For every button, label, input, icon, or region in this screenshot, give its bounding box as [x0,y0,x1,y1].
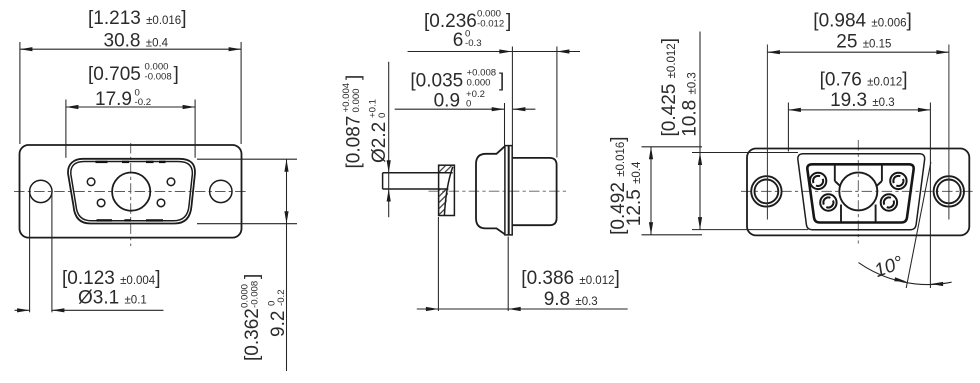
svg-text:-0.3: -0.3 [465,38,482,49]
svg-text:[1.213 ±0.016]: [1.213 ±0.016] [88,8,186,29]
svg-text:-0.2: -0.2 [276,289,287,306]
svg-text:25 ±0.15: 25 ±0.15 [836,32,891,53]
svg-text:Ø3.1 ±0.1: Ø3.1 ±0.1 [78,288,147,309]
svg-text:[0.035: [0.035 [410,70,463,91]
svg-text:[0.087: [0.087 [344,116,365,169]
svg-text:6: 6 [453,30,464,51]
svg-text:]: ] [242,274,263,279]
svg-text:0: 0 [377,113,388,118]
svg-text:-0.008: -0.008 [249,281,260,308]
svg-text:-0.2: -0.2 [135,97,152,108]
svg-text:17.9: 17.9 [95,89,132,110]
svg-text:-0.008: -0.008 [145,71,172,82]
svg-text:0.000: 0.000 [351,88,362,112]
svg-text:0.000: 0.000 [467,78,491,89]
svg-text:12.5 ±0.4: 12.5 ±0.4 [624,161,645,226]
svg-text:]: ] [506,11,511,32]
svg-text:30.8 ±0.4: 30.8 ±0.4 [104,31,169,52]
svg-text:[0.76 ±0.012]: [0.76 ±0.012] [820,70,908,91]
svg-text:9.2: 9.2 [268,311,289,337]
svg-text:[0.984 ±0.006]: [0.984 ±0.006] [813,11,911,32]
svg-text:[0.705: [0.705 [88,64,141,85]
svg-text:[0.425 ±0.012]: [0.425 ±0.012] [659,38,680,136]
svg-text:19.3 ±0.3: 19.3 ±0.3 [830,90,895,111]
svg-text:0: 0 [466,99,471,110]
svg-text:9.8 ±0.3: 9.8 ±0.3 [544,289,598,310]
svg-text:]: ] [499,70,504,91]
svg-text:10°: 10° [872,252,907,282]
svg-text:[0.123 ±0.004]: [0.123 ±0.004] [62,268,160,289]
svg-text:0.9: 0.9 [434,91,460,112]
svg-text:[0.386 ±0.012]: [0.386 ±0.012] [521,268,619,289]
svg-text:]: ] [344,75,365,80]
svg-text:10.8 ±0.3: 10.8 ±0.3 [680,72,701,137]
svg-text:[0.362: [0.362 [242,308,263,361]
svg-text:-0.012: -0.012 [477,18,504,29]
svg-text:]: ] [174,64,179,85]
svg-text:Ø2.2: Ø2.2 [369,122,390,163]
